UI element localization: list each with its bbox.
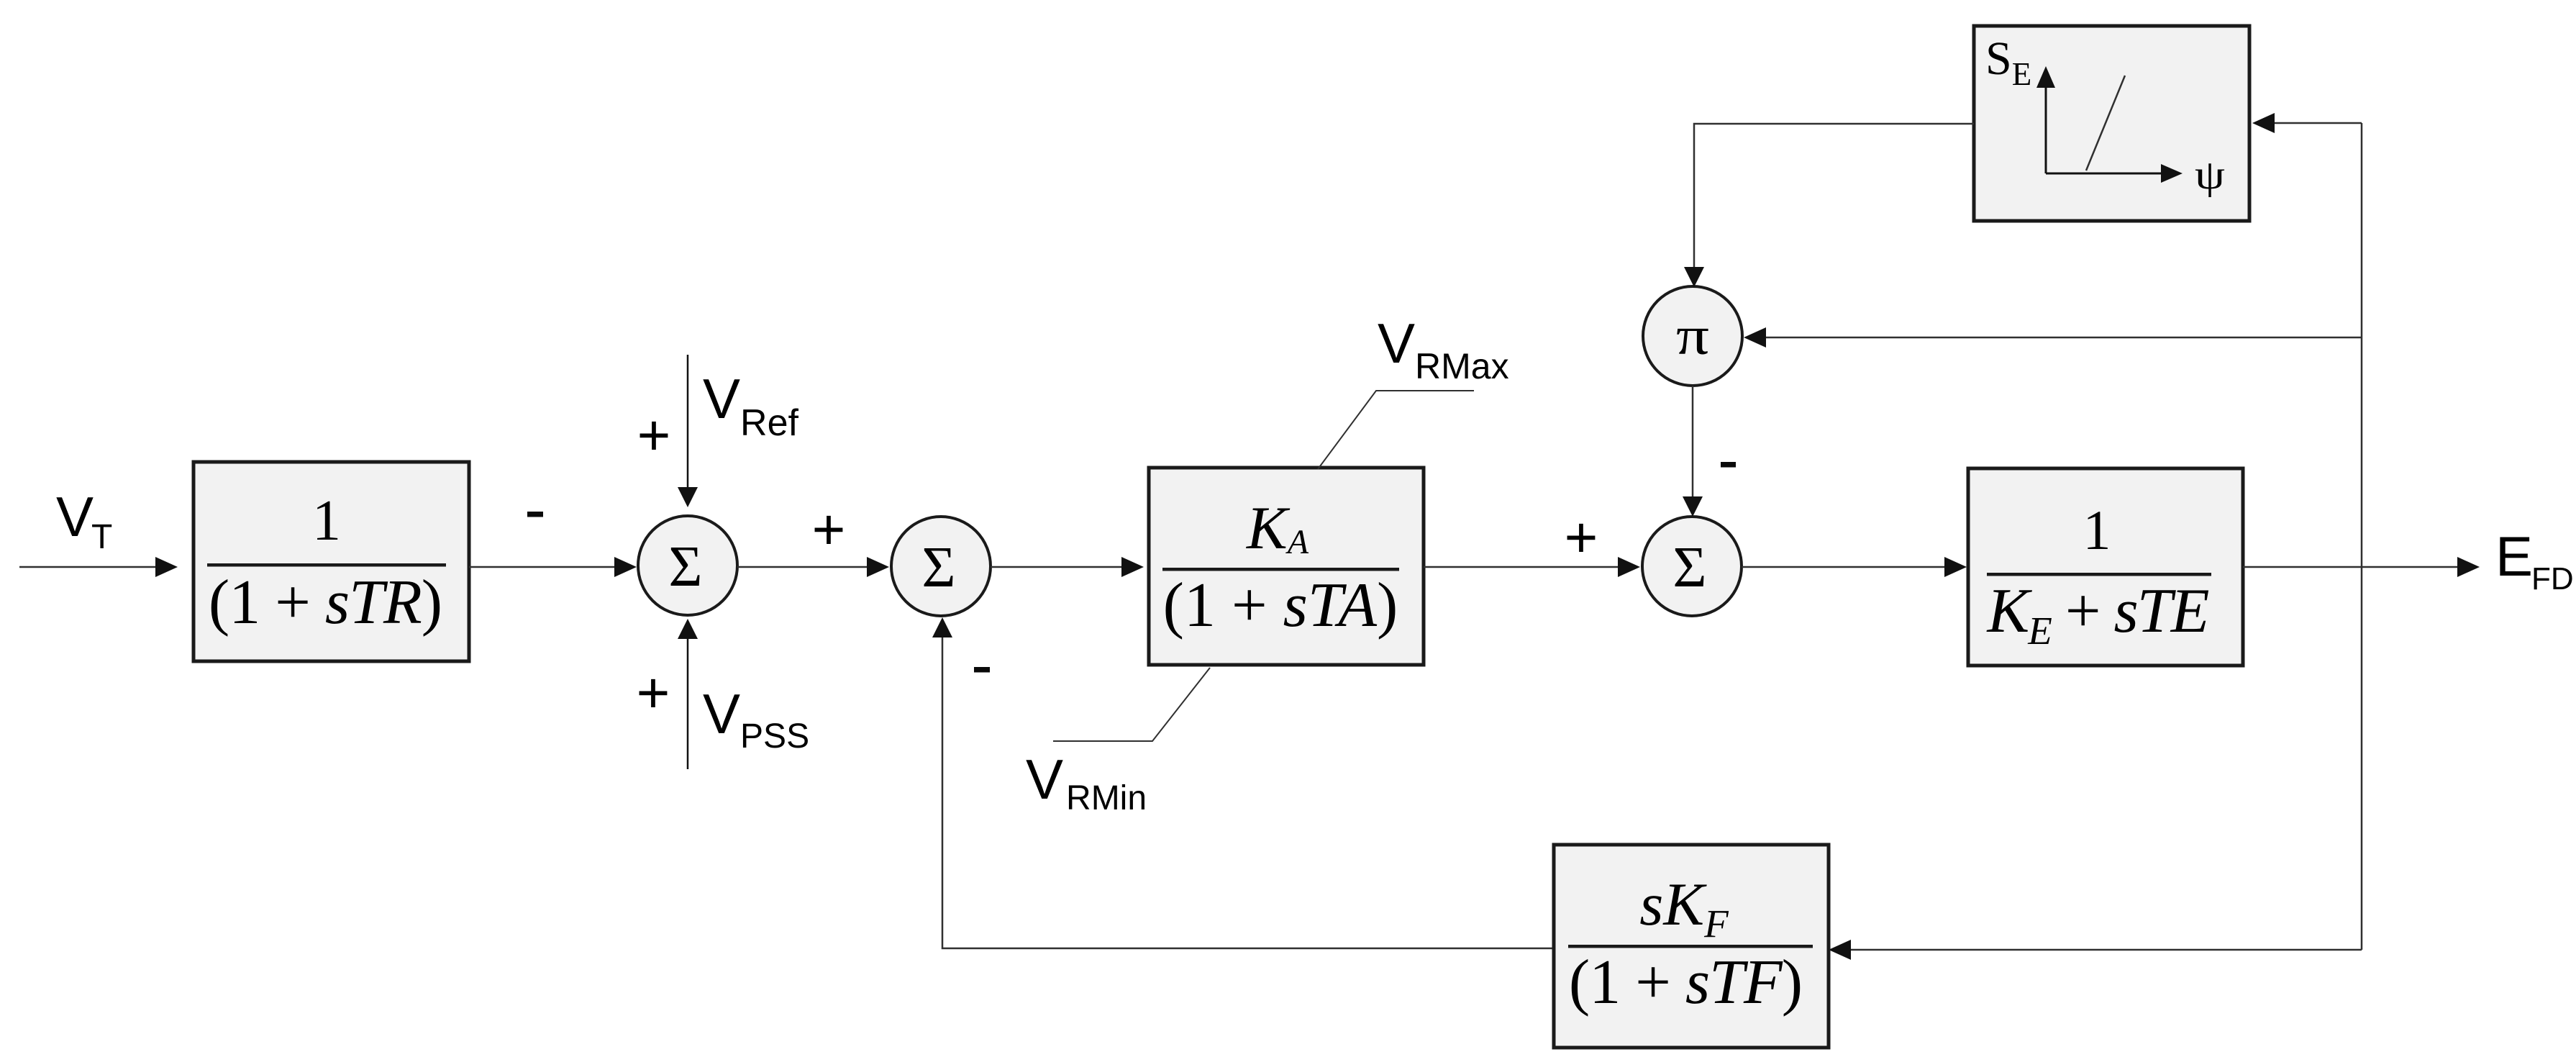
svg-text:Σ: Σ bbox=[1672, 535, 1706, 599]
svg-text:KE + sTE: KE + sTE bbox=[1986, 576, 2209, 653]
svg-text:+: + bbox=[1565, 505, 1598, 569]
svg-text:Σ: Σ bbox=[921, 535, 955, 599]
svg-text:(1 + sTA): (1 + sTA) bbox=[1163, 571, 1398, 640]
wire output E_FD bbox=[2243, 557, 2480, 577]
wire feedback takeoff vertical bbox=[2361, 123, 2363, 950]
block 1/(KE+sTE) bbox=[1968, 468, 2243, 666]
svg-text:+: + bbox=[637, 403, 671, 467]
wire PI down to sum3 bbox=[1683, 386, 1703, 517]
wire V_PSS input bbox=[678, 619, 698, 769]
multiplier junction PI bbox=[1643, 286, 1742, 386]
SE inner saturation curve bbox=[2086, 76, 2125, 171]
block sKF/(1+sTF) bbox=[1554, 845, 1829, 1048]
summing junction S2 bbox=[891, 517, 991, 616]
SE inner horizontal axis bbox=[2046, 164, 2183, 183]
svg-text:(1 + sTR): (1 + sTR) bbox=[209, 568, 442, 637]
wire sum1 to sum2 bbox=[737, 557, 889, 577]
svg-text:1: 1 bbox=[312, 489, 341, 553]
minus sign at sum1 input bbox=[527, 512, 543, 517]
wire feedback into SE block bbox=[2252, 113, 2362, 133]
callout line V_RMax bbox=[1318, 391, 1474, 469]
svg-text:+: + bbox=[812, 497, 846, 561]
summing junction S1 bbox=[638, 516, 737, 615]
block SE saturation bbox=[1974, 26, 2249, 221]
callout line V_RMin bbox=[1053, 668, 1210, 741]
minus sign sum3 top input bbox=[1721, 462, 1736, 468]
wire feedback from sKF up into sum2 bbox=[932, 617, 1554, 948]
wire sum2 to KA block bbox=[991, 557, 1144, 577]
svg-text:(1 + sTF): (1 + sTF) bbox=[1569, 948, 1802, 1017]
svg-text:π: π bbox=[1676, 306, 1709, 366]
block 1/(1+sTR) bbox=[194, 462, 469, 661]
wire sum3 to KE block bbox=[1742, 557, 1967, 577]
wire SE output to PI bbox=[1684, 124, 1974, 287]
wire V_T input bbox=[19, 557, 178, 577]
block KA/(1+sTA) bbox=[1149, 468, 1424, 665]
minus sign sum2 bottom input bbox=[974, 667, 990, 673]
summing junction S3 bbox=[1642, 517, 1742, 616]
wire block1 to sum1 bbox=[469, 557, 637, 577]
svg-text:Σ: Σ bbox=[668, 534, 702, 599]
wire feedback into PI bbox=[1744, 327, 2362, 348]
SE inner vertical axis bbox=[2036, 66, 2055, 173]
svg-text:1: 1 bbox=[2083, 499, 2111, 561]
svg-text:ψ: ψ bbox=[2195, 153, 2225, 198]
wire KA to sum3 bbox=[1424, 557, 1640, 577]
svg-text:+: + bbox=[637, 661, 670, 725]
wire feedback into sKF block bbox=[1829, 940, 2362, 960]
wire V_Ref input bbox=[678, 355, 698, 507]
